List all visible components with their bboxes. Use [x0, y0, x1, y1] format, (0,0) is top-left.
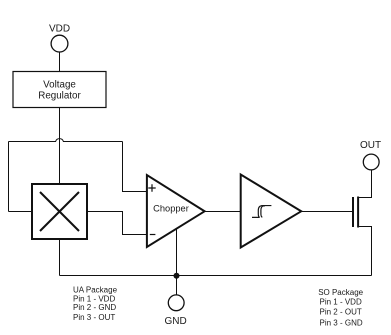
svg-text:Regulator: Regulator — [38, 91, 81, 102]
svg-text:Pin 3 - OUT: Pin 3 - OUT — [73, 313, 115, 322]
svg-text:Pin 2 - OUT: Pin 2 - OUT — [320, 308, 362, 317]
svg-text:Voltage: Voltage — [43, 80, 76, 91]
svg-text:GND: GND — [164, 316, 186, 327]
svg-text:Pin 2 - GND: Pin 2 - GND — [73, 303, 116, 312]
svg-text:Chopper: Chopper — [153, 204, 189, 214]
svg-text:SO Package: SO Package — [318, 288, 363, 297]
svg-text:VDD: VDD — [49, 23, 70, 34]
svg-text:OUT: OUT — [360, 140, 381, 151]
svg-text:Pin 3 - GND: Pin 3 - GND — [320, 319, 363, 328]
svg-text:Pin 1 - VDD: Pin 1 - VDD — [320, 298, 362, 307]
svg-text:UA Package: UA Package — [73, 285, 118, 294]
